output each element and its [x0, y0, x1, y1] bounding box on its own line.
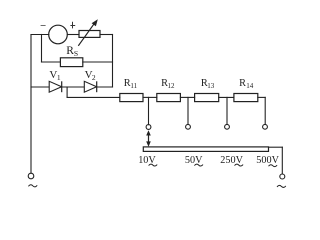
svg-text:11: 11: [130, 82, 137, 90]
svg-text:10V: 10V: [138, 155, 156, 166]
svg-text:500V: 500V: [256, 155, 279, 166]
svg-text:1: 1: [57, 73, 61, 82]
svg-text:50V: 50V: [185, 155, 203, 166]
svg-text:250V: 250V: [220, 155, 243, 166]
svg-text:R: R: [239, 78, 246, 89]
svg-text:S: S: [74, 49, 78, 58]
svg-text:14: 14: [246, 82, 254, 90]
svg-text:2: 2: [92, 73, 96, 82]
svg-text:13: 13: [207, 82, 215, 90]
svg-text:12: 12: [168, 82, 176, 90]
